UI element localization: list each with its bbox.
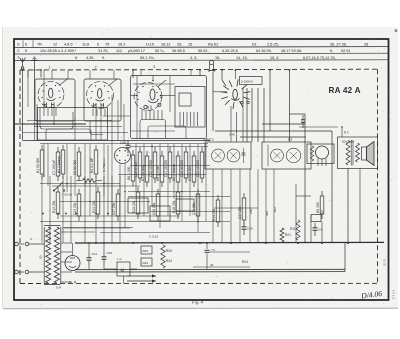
- wire top bus over V3: [132, 70, 134, 78]
- coil box low: [38, 108, 108, 141]
- svg-text:42: 42: [210, 263, 214, 267]
- svg-text:5: 5: [97, 43, 99, 47]
- filter cap C62: [103, 252, 105, 257]
- chassis dashed boundary bottom: [20, 282, 378, 284]
- resistor R16: [176, 192, 180, 214]
- wire x289 drop: [289, 70, 291, 142]
- wire v x112: [111, 95, 113, 141]
- tube V2 envelope: [87, 82, 114, 109]
- resistor R6: [131, 155, 135, 181]
- shield can V2: [84, 79, 121, 121]
- svg-text:3: 3: [153, 65, 155, 69]
- tube V3 cathode arc: [148, 101, 158, 103]
- svg-text:50 ¼,: 50 ¼,: [155, 49, 165, 53]
- resistor C31: [196, 194, 200, 216]
- svg-text:R11: R11: [290, 227, 296, 231]
- wire top right h: [290, 113, 306, 115]
- svg-text:15: 15: [188, 43, 192, 47]
- svg-text:8 7 2 4: 8 7 2 4: [392, 289, 396, 299]
- svg-text:7 50 (0): 7 50 (0): [62, 193, 72, 197]
- cap C48: [127, 141, 129, 146]
- chassis dashed boundary right: [377, 69, 379, 283]
- header rule 1: [14, 47, 389, 48]
- wire h y228: [62, 227, 130, 229]
- svg-text:R26: R26: [166, 249, 172, 253]
- V3 box wire h84: [133, 83, 175, 85]
- tube V2 grid dots: [91, 91, 92, 92]
- forest wires vertical: [43, 144, 45, 177]
- tube V1 grid dots: [42, 90, 43, 91]
- cap C output: [302, 115, 304, 120]
- output transformer primary: [346, 141, 350, 166]
- wire h y126: [34, 126, 122, 128]
- svg-text:R7 50 000: R7 50 000: [141, 166, 145, 181]
- shield can V3: [131, 76, 207, 139]
- wire v x28: [27, 70, 29, 107]
- wire v x342 top: [341, 127, 343, 137]
- svg-text:R5 350: R5 350: [316, 202, 320, 213]
- tube V3 anode slot: [150, 89, 155, 100]
- svg-text:R24: R24: [242, 260, 248, 264]
- resistor R26: [161, 245, 165, 268]
- box above V4: [240, 77, 263, 85]
- tube V1 electrodes: [44, 103, 47, 108]
- svg-text:R4 0,1 MF: R4 0,1 MF: [90, 158, 94, 173]
- wire V4 pin drop: [230, 106, 232, 142]
- wire earth drop: [34, 70, 36, 110]
- wire diag V3: [158, 80, 166, 87]
- svg-text:μ5,660 17: μ5,660 17: [128, 49, 145, 53]
- V3 box wire v137: [136, 76, 138, 139]
- IF trim cap: [243, 148, 245, 163]
- svg-text:4,8 6: 4,8 6: [64, 43, 72, 47]
- wire grid top V1: [40, 70, 42, 78]
- box mid 3: [176, 199, 194, 211]
- wire v x118: [117, 100, 119, 141]
- svg-text:R13 25k: R13 25k: [92, 200, 96, 213]
- svg-text:Ra 61: Ra 61: [208, 43, 218, 47]
- svg-text:DL: DL: [252, 43, 257, 47]
- wire loop under V3 b: [148, 126, 186, 139]
- svg-text:R8 0,3 MF: R8 0,3 MF: [156, 166, 160, 181]
- paper bottom edge: [3, 307, 398, 309]
- wire V4 right drop 1: [251, 88, 253, 142]
- earth symbol: [32, 57, 38, 70]
- wire h y140: [23, 140, 211, 142]
- transformer tie top: [44, 225, 61, 227]
- cap C16: [314, 223, 316, 228]
- cap C7b: [206, 243, 208, 249]
- output resistor zig: [310, 146, 314, 161]
- forest junction dots: [43, 175, 45, 177]
- bus junction dots: [95, 242, 97, 244]
- resistor R3: [61, 150, 65, 174]
- output tube V5 pins: [317, 159, 319, 167]
- tube V2 pins: [92, 109, 94, 117]
- svg-text:64 36,95,: 64 36,95,: [256, 49, 272, 53]
- switch S2 arm: [54, 182, 63, 191]
- speaker: [362, 142, 375, 166]
- tube V4 sunburst rays: [233, 102, 234, 109]
- wire diag V1: [59, 79, 68, 86]
- wire mid h3: [240, 136, 306, 138]
- wire right rail x305: [304, 114, 306, 243]
- resistor C9: [77, 152, 81, 176]
- IF can S.C.1 box: [205, 142, 251, 169]
- wire x270 drop: [269, 70, 271, 131]
- wire x296 vertical: [295, 184, 297, 243]
- power transformer secondary: [54, 227, 59, 283]
- svg-text:2,5-25,: 2,5-25,: [267, 43, 279, 47]
- wire h y196: [128, 196, 230, 198]
- resistor C27: [116, 194, 120, 216]
- svg-text:6·: 6·: [75, 56, 78, 60]
- box b2: [141, 258, 152, 266]
- tube V3 pins: [141, 110, 143, 120]
- box small mid: [311, 215, 321, 222]
- rectifier tube V6: [65, 256, 80, 271]
- wire x345 vertical: [344, 243, 346, 272]
- bus y271.8: [75, 271, 345, 273]
- svg-text:112: 112: [116, 49, 122, 53]
- transformer tie bottom: [44, 284, 61, 286]
- wire rail x360: [359, 169, 361, 243]
- svg-text:K.1: K.1: [344, 131, 349, 135]
- output transformer box: [338, 137, 378, 169]
- wire v from M: [123, 276, 125, 284]
- border frame: [14, 39, 389, 300]
- svg-text:11,8: 11,8: [82, 43, 89, 47]
- tube V1 envelope: [38, 82, 64, 108]
- resistor C37: [242, 198, 246, 220]
- svg-text:C62: C62: [107, 251, 113, 255]
- output tube V5 envelope: [316, 146, 329, 159]
- tube V1 anode slot: [49, 88, 53, 98]
- svg-text:C27 25k: C27 25k: [112, 202, 116, 215]
- tube V3 grid dots: [138, 92, 139, 93]
- svg-text:(5): (5): [39, 255, 43, 259]
- resistor R11 zigzag: [296, 220, 300, 240]
- wire loop C under V2: [90, 121, 103, 135]
- resistor R4: [94, 150, 98, 174]
- socket view: [115, 148, 131, 164]
- svg-text:48,17 53,58,: 48,17 53,58,: [281, 49, 302, 53]
- wire choke connects: [104, 268, 117, 270]
- svg-text:56,1 2¾,: 56,1 2¾,: [140, 56, 155, 60]
- svg-text:R 7Mohm: R 7Mohm: [102, 158, 106, 172]
- svg-text:12n 28,55 u 2-4 500,¹: 12n 28,55 u 2-4 500,¹: [40, 49, 77, 53]
- resistor R21 zigzag: [280, 228, 284, 242]
- svg-text:C48: C48: [120, 141, 126, 145]
- svg-text:36, 27 36,: 36, 27 36,: [330, 43, 347, 47]
- wire antenna drop: [22, 70, 24, 140]
- svg-text:92 91: 92 91: [341, 49, 351, 53]
- coil box L4 winding: [179, 112, 181, 126]
- resistor R5 vertical: [320, 196, 324, 214]
- wire h y252 right: [210, 251, 251, 253]
- junction dots top: [22, 69, 24, 71]
- bus HT y243: [75, 241, 384, 244]
- resistor R1: [40, 150, 44, 174]
- junctions coil area: [36, 123, 38, 125]
- junction dot row y213: [42, 213, 44, 215]
- svg-text:C: C: [17, 49, 20, 53]
- svg-text:28: 28: [364, 43, 368, 47]
- svg-text:2: 2: [95, 65, 97, 69]
- tube V2 electrodes: [94, 103, 97, 108]
- tube V4 cathode arc: [231, 99, 239, 101]
- bus y267: [193, 266, 250, 268]
- output transformer secondary: [356, 143, 360, 162]
- svg-text:R25: R25: [143, 249, 149, 253]
- svg-text:6: 6: [25, 43, 27, 47]
- arrow right 2: [127, 280, 156, 282]
- power transformer frame right: [60, 227, 62, 283]
- wire V4 right drop 2: [257, 88, 259, 142]
- wire right rail x348: [347, 169, 349, 243]
- header rule 3: [14, 59, 389, 62]
- box mid 2: [150, 206, 170, 221]
- motor/choke box M: [117, 262, 130, 276]
- wire mid h2: [215, 130, 332, 132]
- IF can L3 box: [262, 142, 311, 169]
- IF coil crossed 2: [227, 149, 240, 162]
- svg-text:R15 25k: R15 25k: [132, 200, 136, 213]
- antenna symbol: [20, 58, 26, 71]
- wire h y186: [52, 185, 140, 187]
- svg-text:15, 6: 15, 6: [270, 56, 278, 60]
- resistor C29: [156, 194, 160, 216]
- wire V4 top left: [221, 70, 223, 80]
- tube V3 top pin: [152, 76, 154, 81]
- paper left edge: [2, 27, 4, 308]
- svg-text:4,36,: 4,36,: [86, 56, 94, 60]
- tube V2 anode slot: [98, 89, 102, 99]
- svg-text:β·1000·0: β·1000·0: [241, 80, 253, 84]
- svg-text:35 76: 35 76: [383, 259, 387, 266]
- svg-text:400: 400: [265, 211, 269, 216]
- box mid 1: [128, 198, 148, 213]
- svg-text:0 · · ·: 0 · · ·: [30, 237, 37, 241]
- svg-text:L-C: L-C: [117, 257, 122, 261]
- svg-text:R17: R17: [273, 206, 277, 212]
- power transformer frame left: [43, 227, 45, 283]
- svg-text:6,35,25,5: 6,35,25,5: [222, 49, 238, 53]
- wire x243 drop: [242, 88, 244, 142]
- svg-text:S M: S M: [56, 286, 62, 290]
- svg-text:6,07,16,5 75,12,76,: 6,07,16,5 75,12,76,: [303, 56, 336, 60]
- svg-text:R23: R23: [143, 261, 149, 265]
- wire y227: [64, 227, 133, 229]
- svg-text:4, 5,: 4, 5,: [190, 56, 197, 60]
- wire h y116: [103, 115, 130, 117]
- transformer taps: [61, 231, 72, 233]
- wire h y120: [27, 120, 112, 122]
- wire y232: [73, 231, 96, 233]
- svg-text:A50: A50: [249, 208, 253, 214]
- resistor R8: [160, 156, 164, 182]
- IF can3 stub: [267, 145, 269, 167]
- wire jack drop: [212, 72, 214, 131]
- svg-text:5Ωa 5Ωb: 5Ωa 5Ωb: [342, 140, 354, 144]
- chassis dashed boundary top: [20, 68, 378, 71]
- tube V2 cathode arc: [96, 99, 105, 101]
- wire V1 left rail: [27, 70, 29, 78]
- svg-text:31 25,: 31 25,: [98, 49, 109, 53]
- resistor R13: [96, 192, 100, 214]
- tube V4 top pin: [234, 70, 236, 79]
- coil box L4 inner: [179, 93, 191, 106]
- svg-text:4.5.1: 4.5.1: [203, 138, 210, 142]
- resistor R12: [56, 192, 60, 214]
- V3 box wire h131: [131, 130, 175, 132]
- svg-text:C61: C61: [92, 252, 98, 256]
- header rule 2: [14, 52, 389, 55]
- header tick marks: [22, 40, 24, 47]
- svg-text:5: 5: [25, 49, 27, 53]
- svg-text:9,: 9,: [102, 56, 105, 60]
- svg-text:7R: 7R: [37, 43, 42, 47]
- V3 top stubs: [140, 70, 142, 76]
- vertical drops to bus: [212, 169, 214, 243]
- tube V3 bottom electrodes: [144, 105, 147, 108]
- svg-text:R6 1 000: R6 1 000: [127, 166, 131, 180]
- svg-text:16,12: 16,12: [161, 43, 171, 47]
- svg-text:H,15: H,15: [146, 43, 154, 47]
- wire rail x311: [310, 215, 312, 243]
- wire v x124: [123, 104, 125, 141]
- resistor C14: [138, 152, 142, 178]
- coil box L4: [175, 87, 205, 128]
- svg-text:C4: C4: [318, 228, 322, 232]
- resistor C19: [184, 152, 188, 178]
- output stage resistor box: [307, 144, 334, 164]
- box b1: [141, 246, 152, 254]
- power transformer primary: [46, 227, 51, 283]
- svg-text:36·85,5: 36·85,5: [172, 49, 185, 53]
- tube V3 side wires: [131, 95, 138, 97]
- svg-text:1: 1: [49, 65, 51, 69]
- resistor R10: [192, 156, 196, 182]
- resistor R7: [145, 156, 149, 182]
- resistor C23: [77, 194, 81, 216]
- wire verticals in coil area: [36, 104, 38, 140]
- arrow right 1: [127, 275, 156, 277]
- filter cap C61: [88, 253, 90, 258]
- wire diag V2: [108, 79, 117, 86]
- bus y269.5: [75, 268, 345, 270]
- wire h y216: [60, 215, 180, 217]
- corner mark: [395, 30, 397, 32]
- tube V4 anode slot: [233, 89, 238, 99]
- IF coil crossed 4: [286, 148, 300, 162]
- svg-text:RA 42 A: RA 42 A: [329, 86, 361, 95]
- svg-text:7: 7: [17, 56, 19, 60]
- cap C45: [243, 222, 245, 227]
- shield can V1: [35, 79, 75, 121]
- svg-text:M: M: [121, 268, 125, 273]
- svg-text:L3: L3: [288, 138, 292, 142]
- wire loop A under V1: [40, 108, 73, 130]
- wire v x34b: [34, 110, 36, 141]
- svg-text:C7 100 pF: C7 100 pF: [52, 160, 56, 175]
- svg-text:9,: 9,: [330, 49, 333, 53]
- wire h y208: [214, 207, 258, 209]
- wire bottom loop: [239, 243, 241, 249]
- wire V4 down: [246, 88, 248, 142]
- svg-text:C46: C46: [229, 133, 235, 137]
- svg-text:C29 25k: C29 25k: [152, 202, 156, 215]
- svg-text:15,: 15,: [215, 56, 220, 60]
- tube V1 pins: [43, 108, 45, 117]
- pickup jack J1: [209, 60, 216, 72]
- wire right block: [240, 247, 338, 249]
- tube V1 cathode arc: [47, 99, 56, 101]
- wire v x108: [107, 145, 109, 216]
- svg-text:56 62,: 56 62,: [198, 49, 209, 53]
- tube V4 socket circles: [241, 101, 244, 104]
- svg-text:16,1: 16,1: [118, 43, 125, 47]
- mains terminal a: [15, 242, 19, 246]
- IF coil crossed 3: [271, 149, 284, 162]
- resistor R15: [136, 192, 140, 214]
- wire v x44: [43, 70, 45, 107]
- chassis dashed boundary left: [19, 70, 21, 284]
- resistor C21: [200, 152, 204, 178]
- V3 box wire v170: [169, 76, 171, 113]
- wire h y143: [40, 143, 208, 145]
- wire h y127: [299, 126, 338, 128]
- svg-text:R1 50 000: R1 50 000: [36, 158, 40, 173]
- tube V3 envelope: [134, 83, 162, 111]
- svg-text:12: 12: [53, 43, 57, 47]
- IF coil crossed 1: [212, 149, 225, 162]
- resistor R9: [176, 156, 180, 182]
- V2 top stubs: [89, 70, 91, 79]
- svg-text:C·0,15: C·0,15: [149, 235, 158, 239]
- mains terminal b: [15, 270, 19, 274]
- svg-text:R14 25k: R14 25k: [212, 208, 216, 221]
- resistor R14: [216, 200, 220, 222]
- wire right rail x332: [331, 131, 333, 243]
- wire h y132: [23, 132, 129, 134]
- V1 top stubs: [51, 70, 53, 79]
- wire loop B under V1: [46, 129, 91, 140]
- svg-text:R12 25k: R12 25k: [52, 200, 56, 213]
- forest wires horizontal: [130, 165, 210, 167]
- svg-text:R24: R24: [166, 259, 172, 263]
- svg-text:26,: 26,: [177, 43, 182, 47]
- wire V4 right drop 3: [263, 88, 265, 142]
- resistor C15: [153, 152, 157, 178]
- wire mid h1: [262, 123, 305, 125]
- resistor C17: [168, 152, 172, 178]
- svg-text:Fig. 4: Fig. 4: [191, 300, 204, 305]
- wire dark y124: [15, 123, 86, 125]
- resistor R horizontal: [82, 179, 96, 183]
- svg-text:R3 2 Mohm: R3 2 Mohm: [57, 156, 61, 173]
- vertical drops left: [41, 176, 43, 243]
- svg-text:7 b: 7 b: [211, 248, 216, 252]
- wire h y196 right: [296, 195, 311, 197]
- wire V4 left: [213, 91, 227, 93]
- resistor C7: [56, 152, 60, 176]
- svg-text:R16 25k: R16 25k: [172, 200, 176, 213]
- wire loop under V3 a: [140, 120, 166, 139]
- output transformer core: [350, 140, 352, 166]
- wire x322 drop: [321, 210, 323, 215]
- svg-text:14, 15,: 14, 15,: [236, 56, 248, 60]
